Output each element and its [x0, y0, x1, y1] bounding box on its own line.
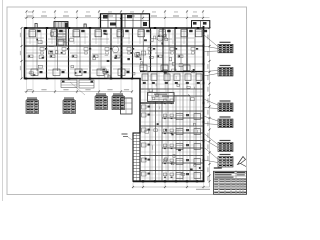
chimney stub	[35, 24, 37, 29]
title block frame	[214, 171, 247, 194]
stair treads upper	[57, 29, 66, 31]
title block rows	[214, 173, 247, 175]
elevator box	[58, 40, 64, 45]
west porch lower wing	[121, 98, 133, 114]
top wing bottom wall	[25, 78, 141, 80]
table circle 1	[112, 46, 118, 52]
stair treads	[134, 135, 140, 137]
note text above title block	[214, 167, 222, 168]
vertical partitions lower wing	[149, 103, 151, 181]
upper tick row	[26, 11, 28, 13]
area table 1	[27, 98, 37, 99]
mid walls	[25, 45, 204, 47]
top-right balcony	[192, 21, 210, 28]
wall below hall box	[140, 102, 174, 104]
room detail lines lower wing	[141, 75, 203, 77]
beds lower wing	[176, 114, 183, 120]
right outer wall	[203, 26, 205, 182]
top wing left wall	[24, 27, 26, 79]
bath cluster lower wing	[164, 99, 167, 102]
schedule table 5	[220, 140, 231, 141]
north arrow	[238, 157, 246, 165]
wall piers bottom	[25, 78, 27, 80]
left rooms lower wing furniture	[142, 105, 147, 109]
right dim rotated text	[207, 35, 210, 40]
misc lower wing	[178, 149, 181, 151]
room partitions lower wing	[140, 88, 204, 90]
hall leader	[174, 95, 190, 97]
entrance porch steps 2	[79, 80, 94, 88]
minor shelves top wing	[26, 37, 44, 39]
kitchen fixtures row	[28, 55, 33, 58]
area table 4	[113, 94, 123, 95]
top dim ticks	[26, 17, 28, 19]
sheet outer left border	[2, 0, 4, 201]
lower wing left wall	[139, 79, 141, 134]
top dimension line	[25, 17, 210, 19]
title block columns	[218, 178, 220, 194]
upper rooms lower wing furniture	[142, 74, 148, 81]
top protrusion block	[101, 14, 150, 28]
stairwell walls	[56, 28, 58, 46]
area table 2	[64, 98, 74, 99]
left dimension line	[21, 28, 23, 79]
table circle 2	[157, 35, 163, 41]
top dim text	[27, 16, 33, 17]
unit partitions top wing	[46, 28, 48, 79]
small top porch	[54, 22, 68, 29]
stair leader marks	[122, 134, 128, 135]
lower wing bottom wall	[133, 180, 204, 182]
right wall piers	[203, 45, 205, 47]
stair block west	[133, 133, 140, 181]
bottom dimension line	[133, 186, 210, 188]
bath fixtures row	[40, 48, 44, 51]
sheet inner frame	[7, 7, 247, 195]
schedule table 3	[220, 100, 231, 101]
title block text	[215, 172, 235, 173]
unit partitions top wing right	[150, 28, 152, 72]
thick service wall x121	[121, 14, 123, 79]
schedule table 4	[220, 116, 231, 117]
entrance porch steps 1	[61, 80, 77, 88]
sub partitions top wing	[36, 29, 38, 71]
hall label box	[148, 93, 175, 102]
area table 3	[96, 94, 106, 95]
leaders to tables	[204, 35, 218, 47]
room detail lines top wing	[29, 30, 31, 44]
bottom-left dimension lines	[25, 91, 133, 93]
bottom wall piers extra	[142, 180, 144, 182]
schedule table 6	[220, 154, 231, 155]
right dimension line	[209, 20, 211, 187]
schedule table 2	[220, 65, 231, 66]
schedule table 1	[220, 42, 231, 43]
corridor walls lower wing	[155, 96, 157, 181]
wall piers top	[25, 27, 27, 29]
misc furniture top wing	[105, 55, 108, 57]
vertical grid lines	[26, 10, 28, 79]
porch leader line	[70, 82, 85, 95]
beds and wardrobes top wing	[29, 30, 36, 37]
scale note text	[196, 189, 210, 190]
top wing top wall	[25, 27, 101, 29]
chimney stub 2	[84, 24, 86, 28]
